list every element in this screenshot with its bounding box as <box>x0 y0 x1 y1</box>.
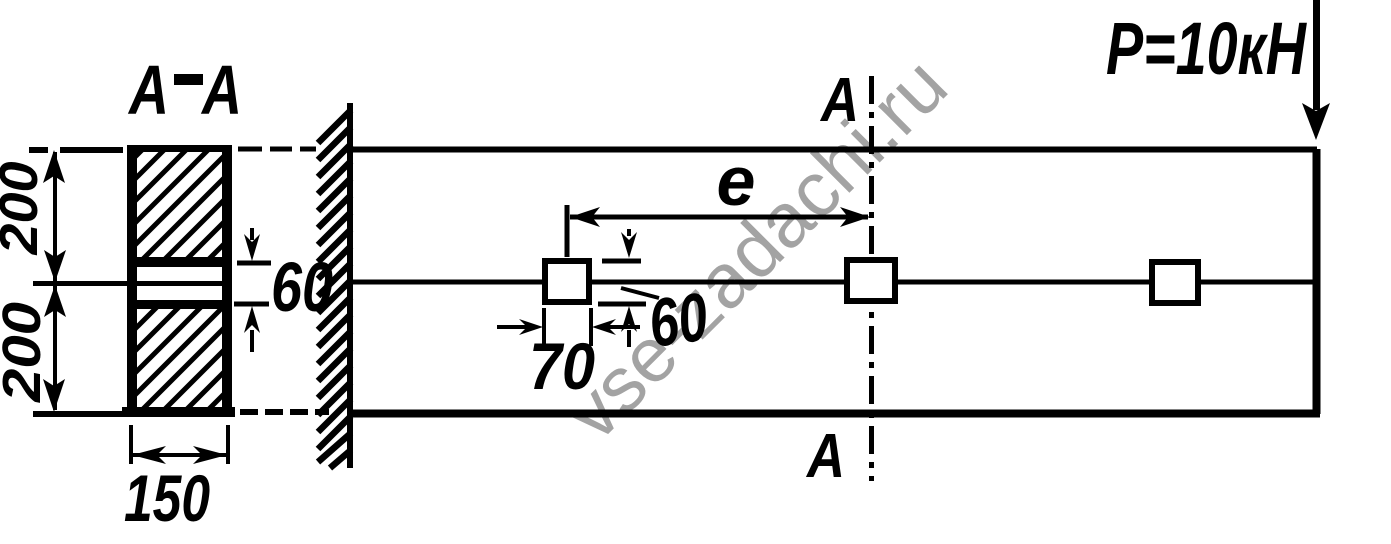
svg-text:70: 70 <box>529 329 595 403</box>
svg-text:60: 60 <box>271 248 333 326</box>
svg-text:200: 200 <box>0 302 52 403</box>
svg-text:e: e <box>717 142 756 220</box>
svg-text:A: A <box>805 422 845 491</box>
svg-text:150: 150 <box>124 461 210 535</box>
svg-text:P=10кН: P=10кН <box>1106 7 1307 90</box>
svg-text:A: A <box>819 66 859 135</box>
svg-text:A: A <box>200 51 242 129</box>
svg-text:A: A <box>127 51 169 129</box>
svg-text:200: 200 <box>0 162 49 256</box>
svg-text:60: 60 <box>644 279 712 362</box>
